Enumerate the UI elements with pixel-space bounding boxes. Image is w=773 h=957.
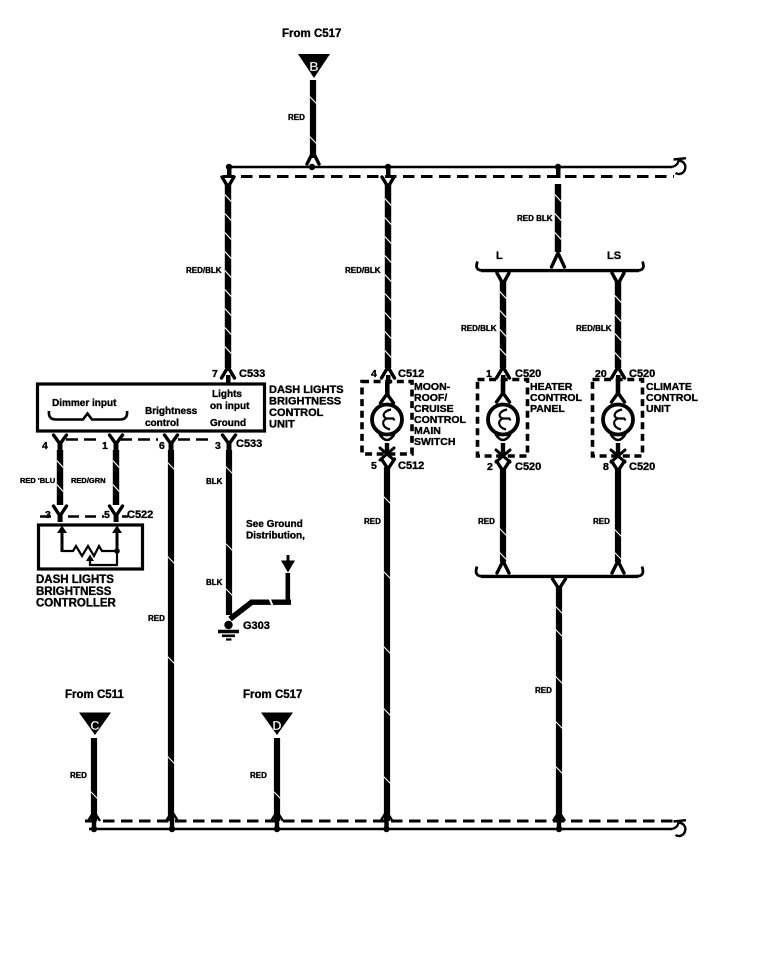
component label DASH LIGHTS BRIGHTNESS CONTROLLER — [36, 574, 117, 610]
svg-text:RED/BLK: RED/BLK — [186, 266, 222, 275]
bottom bus continuation squiggle — [672, 820, 686, 836]
svg-text:CONTROLLER: CONTROLLER — [36, 598, 117, 610]
svg-text:CONTROL: CONTROL — [269, 407, 324, 419]
wire RED/BLK (to dash lights unit) — [225, 184, 231, 368]
illumination lamp (heater panel) — [488, 405, 518, 435]
connector label C533 (bottom) — [236, 438, 262, 450]
connector C533 pin 4 — [42, 435, 67, 452]
off-page connector triangle D — [261, 713, 293, 736]
svg-text:RED/BLK: RED/BLK — [576, 324, 612, 333]
arrow to ground distribution — [281, 555, 295, 573]
dash lights brightness controller box — [39, 525, 143, 569]
svg-text:G303: G303 — [243, 620, 270, 632]
wire RED from connector B — [310, 80, 317, 158]
splice bar L/LS — [477, 262, 644, 271]
svg-text:LS: LS — [607, 250, 621, 262]
svg-text:PANEL: PANEL — [530, 403, 565, 415]
svg-text:8: 8 — [603, 461, 609, 473]
connector C522 pin 3 — [45, 506, 67, 522]
wire RED/BLK (to moonroof switch) — [385, 184, 391, 368]
svg-text:C522: C522 — [127, 509, 153, 521]
wire label RED (C drop) — [70, 771, 87, 780]
svg-text:DASH LIGHTS: DASH LIGHTS — [36, 574, 114, 586]
fork crossing at switch box bottom — [380, 448, 394, 460]
svg-text:C520: C520 — [515, 461, 541, 473]
wire RED/BLK (to L/LS splice bar) — [555, 184, 561, 252]
connector C533 pin 1 — [102, 435, 123, 452]
svg-text:Distribution,: Distribution, — [246, 531, 305, 542]
junction node moonroof RED wire / bottom bus — [381, 813, 393, 832]
svg-text:DASH LIGHTS: DASH LIGHTS — [269, 384, 344, 396]
svg-text:6: 6 — [159, 440, 165, 452]
svg-text:RED: RED — [250, 771, 267, 780]
box text Brightness control — [145, 406, 198, 429]
wire RED (moonroof switch to bus) — [384, 467, 391, 821]
connector C520 pin 20 — [595, 367, 655, 382]
connector C512 pin 4 — [371, 367, 424, 384]
svg-text:From C511: From C511 — [65, 689, 124, 701]
wire label RED/BLK — [517, 214, 553, 223]
connector C522 pin 5 — [104, 506, 123, 522]
wire BLK (ground lead) — [226, 450, 233, 615]
svg-text:From C517: From C517 — [243, 689, 302, 701]
lamp base and stem (moonroof switch) — [380, 434, 395, 453]
wire RED/BLK (heater feed) — [500, 281, 506, 368]
connector label C522 — [127, 509, 153, 521]
svg-text:C533: C533 — [239, 368, 265, 380]
wire label RED/BLK — [576, 324, 612, 333]
wire label RED/GRN — [71, 476, 106, 485]
label From C517 (top) — [282, 28, 341, 40]
wire label RED (pin 6 drop) — [148, 614, 165, 623]
wire label RED (heater drop) — [478, 517, 495, 526]
svg-text:BLK: BLK — [206, 578, 223, 587]
dash lights brightness control unit box — [38, 384, 265, 431]
wire label BLK (lower) — [206, 578, 223, 587]
fork joint below bar x=503 — [497, 273, 509, 284]
svg-text:2: 2 — [487, 461, 493, 473]
moonroof/cruise control main switch dashed box — [362, 382, 412, 455]
illumination lamp (moonroof switch) — [372, 405, 402, 435]
svg-text:RED/GRN: RED/GRN — [71, 476, 106, 485]
svg-text:control: control — [145, 418, 179, 429]
box text Dimmer input — [52, 398, 117, 409]
lamp base and stem (heater panel) — [496, 434, 511, 454]
svg-text:RED: RED — [288, 113, 305, 122]
wire RED from connector D — [274, 738, 281, 821]
top bus dashed wire — [223, 175, 674, 178]
svg-text:Lights: Lights — [212, 389, 242, 400]
svg-text:5: 5 — [371, 460, 377, 472]
svg-text:BRIGHTNESS: BRIGHTNESS — [269, 396, 341, 408]
wire label RED/BLU — [20, 476, 55, 485]
svg-text:C512: C512 — [398, 368, 424, 380]
ground label G303 — [243, 620, 270, 632]
svg-text:RED: RED — [364, 517, 381, 526]
wire RED (brightness control to bus) — [168, 450, 175, 821]
junction node x=558 top bus — [555, 164, 561, 178]
svg-text:BLK: BLK — [206, 477, 223, 486]
svg-text:B: B — [309, 59, 318, 74]
svg-text:3: 3 — [45, 509, 51, 521]
lamp feed stem inside switch box — [381, 382, 394, 403]
bottom bus solid wire — [89, 828, 672, 831]
lamp base and stem (climate unit) — [611, 434, 626, 454]
lamp feed stem inside heater box — [497, 380, 510, 402]
wire label BLK (upper) — [206, 477, 223, 486]
svg-text:RED/BLK: RED/BLK — [461, 324, 497, 333]
climate control unit dashed box — [593, 380, 643, 457]
connector C533 dashed interface line — [66, 438, 214, 441]
component label CLIMATE CONTROL UNIT — [646, 381, 698, 415]
svg-text:3: 3 — [215, 440, 221, 452]
svg-text:Dimmer input: Dimmer input — [52, 398, 117, 409]
svg-text:4: 4 — [42, 440, 48, 452]
svg-text:RED 'BLU: RED 'BLU — [20, 476, 55, 485]
wire RED from connector C — [91, 738, 98, 821]
svg-text:See Ground: See Ground — [246, 519, 303, 530]
wire label RED (centre drop) — [535, 686, 552, 695]
svg-text:RED/BLK: RED/BLK — [345, 266, 381, 275]
node label L — [496, 250, 503, 262]
fork joint below bar x=618 — [612, 273, 624, 284]
fork joint centre wire below splice bar — [553, 579, 566, 589]
wire diagonal link to ground distribution — [230, 573, 291, 619]
fork joint of wire B onto top bus — [307, 152, 319, 164]
off-page connector triangle B — [298, 54, 330, 78]
svg-text:SWITCH: SWITCH — [414, 436, 455, 448]
illumination lamp (climate unit) — [603, 405, 633, 435]
wire label RED (moonroof drop) — [364, 517, 381, 526]
wire label RED (B drop) — [288, 113, 305, 122]
fork crossing at climate box bottom — [611, 450, 625, 462]
lamp feed stem inside climate box — [612, 380, 625, 402]
svg-text:RED: RED — [70, 771, 87, 780]
junction node x=388 top bus — [385, 164, 391, 178]
svg-text:Brightness: Brightness — [145, 406, 198, 417]
wire RED (climate unit to splice) — [615, 469, 622, 562]
svg-text:RED: RED — [535, 686, 552, 695]
junction node pin6 RED wire / bottom bus — [166, 813, 178, 832]
off-page connector triangle C — [79, 713, 111, 736]
svg-text:C533: C533 — [236, 438, 262, 450]
connector C533 pin 7 — [212, 367, 265, 384]
fork joint top of RED/BLK drop x=228 — [222, 177, 234, 187]
svg-text:RED BLK: RED BLK — [517, 214, 553, 223]
svg-text:C520: C520 — [629, 461, 655, 473]
component label DASH LIGHTS BRIGHTNESS CONTROL UNIT — [269, 384, 344, 431]
fork joint heater wire onto bottom splice bar — [497, 561, 509, 573]
wire RED/BLU (dimmer input) — [57, 450, 63, 505]
connector C520 pin 2 — [487, 461, 541, 473]
svg-text:L: L — [496, 250, 503, 262]
node label LS — [607, 250, 621, 262]
top bus continuation squiggle — [672, 158, 686, 174]
splice bar below heater/climate — [476, 567, 643, 577]
svg-text:on input: on input — [210, 401, 250, 412]
note See Ground Distribution — [246, 519, 305, 542]
svg-text:4: 4 — [371, 368, 377, 380]
svg-text:UNIT: UNIT — [269, 419, 295, 431]
junction node C wire / bottom bus — [88, 813, 100, 832]
wire RED (splice to bottom bus) — [556, 587, 563, 821]
svg-text:C: C — [90, 718, 100, 733]
box text Ground — [210, 418, 246, 429]
wire RED/GRN (dimmer input) — [113, 450, 119, 505]
label From C511 — [65, 689, 124, 701]
connector C533 pin 3 — [215, 435, 236, 452]
connector C520 pin 8 — [603, 461, 655, 473]
connector C522 dashed interface line — [40, 515, 128, 518]
svg-text:RED: RED — [593, 517, 610, 526]
potentiometer resistor element — [62, 546, 120, 556]
connector C512 pin 5 — [371, 459, 424, 472]
junction node at bus left end — [226, 164, 232, 178]
controller pin arrow (pin 3 side) — [57, 526, 67, 553]
bottom bus dashed wire — [85, 820, 674, 823]
component label HEATER CONTROL PANEL — [530, 381, 582, 415]
junction node wire B / top bus — [309, 164, 315, 170]
svg-text:5: 5 — [104, 509, 110, 521]
svg-text:From C517: From C517 — [282, 28, 341, 40]
wire label RED (climate drop) — [593, 517, 610, 526]
wire label RED/BLK — [345, 266, 381, 275]
junction node D wire / bottom bus — [271, 813, 283, 832]
junction node centre RED wire / bottom bus — [553, 813, 565, 832]
fork joint climate wire onto bottom splice bar — [612, 561, 624, 573]
fork crossing at heater box bottom — [496, 450, 510, 462]
top bus solid wire — [229, 166, 672, 169]
fork joint onto L/LS bar — [552, 253, 565, 267]
heater control panel dashed box — [478, 380, 528, 457]
svg-text:BRIGHTNESS: BRIGHTNESS — [36, 586, 112, 598]
svg-text:RED: RED — [478, 517, 495, 526]
component label MOON-ROOF/CRUISE CONTROL MAIN SWITCH — [414, 381, 466, 448]
dimmer input range symbol — [49, 411, 127, 420]
svg-text:Ground: Ground — [210, 418, 246, 429]
wire label RED/BLK — [461, 324, 497, 333]
label From C517 (bottom) — [243, 689, 302, 701]
potentiometer wiper arm — [86, 553, 117, 565]
svg-text:D: D — [272, 718, 281, 733]
svg-text:7: 7 — [212, 368, 218, 380]
controller pin arrow (pin 5 side) — [112, 526, 122, 553]
box text Lights on input — [210, 389, 250, 412]
wire RED (heater panel to splice) — [500, 469, 507, 562]
wire label RED (D drop) — [250, 771, 267, 780]
ground symbol G303 — [218, 621, 239, 640]
svg-text:C512: C512 — [398, 460, 424, 472]
svg-text:RED: RED — [148, 614, 165, 623]
connector C533 pin 6 — [159, 435, 178, 452]
fork joint top of RED/BLK drop x=388 — [382, 177, 394, 187]
svg-text:1: 1 — [102, 440, 108, 452]
wire label RED/BLK — [186, 266, 222, 275]
connector C520 pin 1 — [486, 367, 541, 382]
svg-text:UNIT: UNIT — [646, 403, 671, 415]
wire RED/BLK (climate feed) — [615, 281, 621, 368]
